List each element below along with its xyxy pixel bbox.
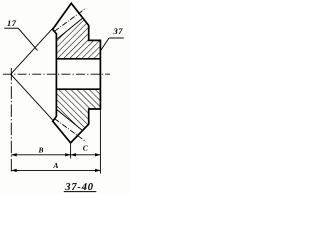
svg-text:17: 17 bbox=[7, 18, 17, 28]
svg-text:C: C bbox=[83, 144, 89, 153]
svg-text:B: B bbox=[38, 146, 44, 155]
svg-text:37: 37 bbox=[113, 26, 124, 36]
svg-text:A: A bbox=[52, 161, 58, 170]
